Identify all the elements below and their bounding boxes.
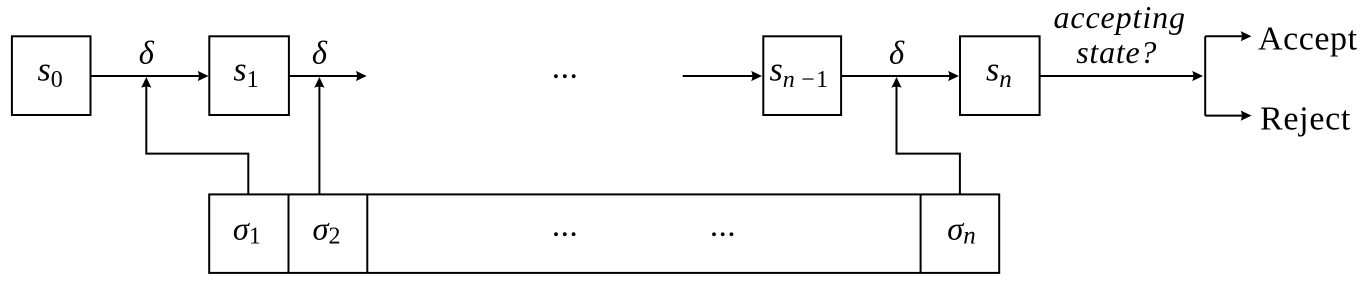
tape cell divider 2 [366,194,368,273]
arrowhead up delta3 [891,77,901,88]
arrowhead up delta1 [141,77,151,88]
read wire sigma2 to delta2 [318,85,320,194]
tape outer rectangle [209,194,999,273]
arrowhead up delta2 [314,77,324,88]
machine ellipsis dots [554,74,558,78]
svg-text:sn: sn [986,52,1012,93]
tape cell divider 1 [288,194,290,273]
state box s_{n-1} [763,36,841,115]
arrowhead to Accept [1241,31,1252,41]
svg-text:Reject: Reject [1260,100,1351,137]
wire arrow s_n to decision fork [1040,75,1195,77]
svg-text:δ: δ [312,35,328,71]
svg-text:δ: δ [139,35,155,71]
arrowhead into decision fork [1192,71,1203,81]
svg-text:state?: state? [1076,34,1157,70]
read wire sigma_n to delta3 [897,85,960,194]
state box s_n [960,36,1040,115]
svg-text:sn −1: sn −1 [770,52,830,93]
svg-text:s1: s1 [233,52,258,93]
wire arrow s0 to s1 [91,75,202,77]
tape ellipsis dots right [712,232,716,236]
wire arrow s_{n-1} to s_n [841,75,951,77]
svg-text:σ2: σ2 [312,211,340,249]
arrowhead to Reject [1241,111,1252,121]
svg-text:Accept: Accept [1258,21,1358,58]
state box s1 [209,36,289,115]
wire arrow s1 onward [289,75,359,77]
svg-text:accepting: accepting [1053,0,1186,35]
read wire sigma1 to delta1 [146,85,248,194]
arrowhead after s1 [356,71,367,81]
arrowhead into s1 [198,71,209,81]
arrowhead into s_n [948,71,959,81]
svg-text:σ1: σ1 [233,211,261,249]
tape ellipsis dots left [554,232,558,236]
svg-text:s0: s0 [37,52,62,93]
wire arrow into s_{n-1} [683,75,754,77]
svg-text:δ: δ [889,35,905,71]
arrowhead into s_{n-1} [751,71,762,81]
tape cell divider 3 [920,194,922,273]
state box s0 [12,36,91,115]
svg-text:σn: σn [947,211,976,249]
decision fork lines [1205,36,1243,115]
